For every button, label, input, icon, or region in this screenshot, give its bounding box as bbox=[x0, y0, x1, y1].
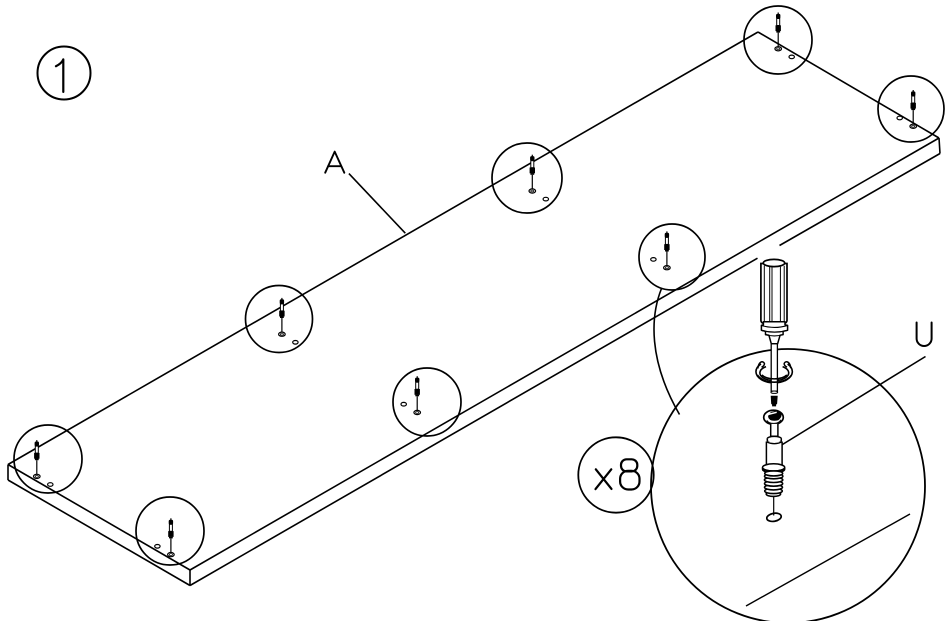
node circle c1 top corner bbox=[744, 6, 812, 74]
handle ribs bbox=[764, 266, 784, 325]
screw U at c2 bbox=[897, 90, 917, 128]
hole ellipse below bolt bbox=[766, 512, 782, 522]
shaft bbox=[771, 344, 777, 391]
screwdriver bbox=[756, 259, 792, 406]
wire top-right edge T-R bbox=[758, 32, 939, 138]
label x8 bbox=[596, 459, 640, 489]
label A bbox=[325, 152, 344, 173]
node circle c6 bbox=[393, 368, 461, 436]
screw U at c7 bbox=[34, 440, 54, 486]
body bbox=[766, 442, 782, 466]
wire vertical edge at L bbox=[7, 465, 9, 481]
handle top ellipse bbox=[763, 259, 784, 266]
wire leader from A to back edge bbox=[349, 174, 405, 234]
node circle c7 left corner bbox=[14, 425, 82, 493]
wire magnified panel edge inside big circle bbox=[746, 514, 910, 606]
cam bolt U (magnified) bbox=[763, 410, 785, 522]
collar bbox=[767, 436, 781, 441]
flange bbox=[763, 464, 785, 471]
ferrule bbox=[761, 322, 787, 344]
node circle c4 bbox=[639, 224, 705, 290]
wire back-top edge L-T bbox=[8, 32, 758, 465]
driver tip bbox=[771, 396, 778, 407]
wire leader arc from c4 to big detail circle bbox=[654, 289, 679, 415]
rotation arrow back arcs bbox=[756, 364, 792, 383]
screw U at c8 bbox=[155, 518, 175, 556]
guide line bbox=[773, 496, 775, 516]
node circle c8 bottom corner bbox=[136, 497, 204, 565]
shaft lower band bbox=[771, 391, 778, 393]
screw U at c4 bbox=[651, 231, 671, 269]
screw U at c3 bbox=[529, 155, 549, 201]
wire front-bottom edge B'-R' part 2 bbox=[780, 154, 941, 246]
node circle c2 right corner bbox=[878, 76, 944, 142]
node circle c3 bbox=[492, 143, 562, 213]
wire vertical edge at R bbox=[939, 138, 940, 154]
big detail circle bbox=[651, 349, 925, 621]
screw U at c5 bbox=[279, 298, 298, 344]
threads bbox=[764, 471, 783, 497]
rotation arrow front arcs bbox=[758, 362, 792, 382]
wire bottom-left edge L'-B' bbox=[8, 480, 190, 586]
head bbox=[764, 410, 784, 424]
step number 1 circle bbox=[38, 47, 91, 100]
screw U at c1 bbox=[775, 13, 795, 59]
node circle c5 bbox=[246, 286, 313, 353]
wire left edge L-B bbox=[8, 465, 190, 571]
neck bbox=[771, 424, 778, 436]
screw U at c6 bbox=[401, 376, 421, 414]
wire front-bottom edge B'-R' part 1 (gap behind screwdriver) bbox=[190, 258, 758, 585]
label U bbox=[917, 323, 932, 347]
wire vertical edge at B bbox=[189, 570, 191, 586]
x8 quantity circle bbox=[578, 437, 653, 512]
wire front-top edge B-R bbox=[190, 138, 939, 570]
handle body bbox=[761, 264, 787, 325]
wire leader from U to cam bolt bbox=[780, 357, 926, 447]
